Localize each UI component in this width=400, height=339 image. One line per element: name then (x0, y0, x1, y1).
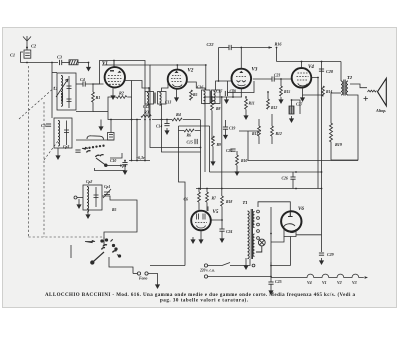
wire V6 output down (290, 237, 292, 266)
svg-text:C20: C20 (226, 149, 232, 153)
svg-text:R2: R2 (119, 91, 124, 96)
wire R17 bottom (207, 206, 209, 211)
capacitor C25 (268, 282, 273, 284)
mains terminal 2 (204, 275, 207, 278)
wire y140 link (76, 139, 114, 141)
transformer T1 (248, 209, 255, 259)
tube V6 (281, 211, 301, 232)
svg-text:C4: C4 (80, 77, 85, 82)
tube V5 (191, 211, 211, 231)
plus mark (364, 96, 368, 100)
rotary wave switch (85, 239, 121, 264)
ground (osc block) (86, 212, 90, 218)
resistor R9 (212, 136, 215, 146)
pilot lamp (256, 239, 265, 252)
svg-text:C17: C17 (216, 90, 223, 94)
svg-text:V4: V4 (308, 65, 314, 70)
node plate (221, 219, 223, 221)
fono terminal 2 (145, 272, 148, 275)
svg-text:C13: C13 (165, 101, 171, 105)
wire T1 right vertical (270, 207, 272, 277)
wire fono line right (109, 257, 133, 274)
capacitor C29 (319, 253, 324, 255)
capacitor C18 (225, 91, 227, 96)
wire R2 left (108, 97, 117, 112)
ground (V5) (199, 237, 203, 243)
svg-text:L1: L1 (53, 87, 58, 91)
wire terminal gnd (78, 199, 80, 202)
ground (input) (87, 65, 91, 71)
resistor R15 (280, 86, 283, 96)
ground (T1) (244, 263, 248, 269)
terminal (pickup) (74, 196, 77, 199)
capacitor C5 (46, 124, 51, 126)
resistor R6 (184, 129, 194, 132)
band switch wiper arcs (87, 151, 104, 157)
wire R18 bottom to plate (211, 206, 222, 220)
wire vertical x318 (317, 92, 319, 189)
svg-text:C29: C29 (327, 252, 334, 257)
wire bus y172 (210, 171, 322, 173)
ground (AVC) (99, 124, 103, 130)
ground (fono) (156, 282, 160, 288)
wire R4 right (183, 119, 200, 121)
ground (R11) (244, 113, 248, 119)
trimmer arrow across L1 (56, 79, 68, 97)
svg-text:T1: T1 (243, 200, 248, 205)
wire V1 top cap (113, 61, 115, 68)
wire R16 drop (276, 48, 278, 62)
coil L4 winding (none) (0, 0, 1, 1)
svg-text:R5: R5 (193, 93, 198, 97)
wire y65 extension (150, 65, 206, 90)
resistor R13b (271, 126, 274, 136)
mains wire 2 (208, 262, 271, 277)
dashed drop to switch (103, 237, 105, 246)
ground (C29) (320, 258, 324, 264)
wire V1 top (113, 61, 115, 67)
ground (Cp4) (123, 168, 127, 174)
wire C25 (270, 277, 272, 289)
svg-text:V5: V5 (213, 210, 219, 215)
svg-text:R12: R12 (276, 132, 282, 136)
svg-text:+6,3v: +6,3v (136, 156, 145, 160)
ground (R10) (235, 169, 239, 175)
capacitor Cp4 (122, 163, 127, 165)
svg-text:C2: C2 (31, 44, 37, 49)
svg-text:C12: C12 (143, 105, 149, 109)
node C23 right (280, 78, 282, 80)
top bus line B (102, 65, 201, 148)
arrow C22 end (269, 46, 272, 49)
osc tracking coil assembly (83, 185, 102, 210)
band switch S1 contacts (88, 145, 104, 149)
wire V6 left link (271, 237, 284, 243)
dashed gang line horizontal (29, 236, 105, 238)
svg-text:C6: C6 (184, 198, 189, 202)
wire T2 primary top (340, 62, 342, 82)
wire switch to fono line (70, 245, 72, 258)
wire V3 plate to C23 (253, 78, 272, 80)
wire detector path (239, 131, 358, 161)
svg-text:C28: C28 (326, 69, 334, 74)
speaker ALTOP (378, 78, 387, 106)
wire output loop right (331, 95, 358, 160)
wire R11 (245, 97, 247, 113)
wire IF1 pri bottom (148, 104, 150, 116)
svg-text:C1: C1 (10, 53, 15, 58)
capacitor C3 (60, 60, 62, 65)
wire Cp4 (124, 161, 126, 169)
wire AVC y119 (108, 112, 172, 120)
capacitor C7 inside (64, 121, 69, 146)
resistor R3 (141, 115, 151, 118)
node filament (136, 160, 138, 162)
capacitor C11 (box) (108, 133, 115, 141)
T1 secondary terminals (252, 210, 259, 267)
wire coil to C4 (76, 83, 83, 85)
ground (C18) (225, 97, 229, 103)
ground (C27) (290, 116, 294, 122)
capacitor C22 (229, 45, 231, 50)
svg-text:Fono: Fono (139, 277, 148, 281)
resistor R2 (117, 96, 127, 99)
filament chain wire (271, 274, 364, 277)
wire C27 top (291, 100, 293, 106)
svg-text:C14: C14 (156, 125, 162, 129)
wire T1 bottom ground (245, 258, 247, 263)
IF2 secondary winding (214, 91, 216, 104)
transformer T2 (341, 80, 348, 96)
wire V2 cathode to ground (176, 89, 178, 95)
wire R13 (258, 119, 260, 144)
tube V3 (232, 69, 252, 89)
wire C22 to arrow (231, 47, 272, 49)
svg-text:C22: C22 (207, 42, 214, 47)
svg-text:R6: R6 (187, 134, 192, 138)
resistor R18 (221, 196, 224, 206)
V3 socket box (228, 81, 255, 93)
ground (C19) (224, 133, 228, 139)
wire T1 sec top to V6 (258, 202, 290, 212)
svg-text:R19: R19 (335, 142, 343, 147)
svg-text:pag. 30 tabelle valori e tarat: pag. 30 tabelle valori e taratura). (160, 299, 249, 304)
svg-text:C26: C26 (282, 177, 288, 181)
top bus line A (grid cap loop V1) (93, 61, 145, 161)
wire x200 grid column (200, 120, 202, 191)
wire osc coil bottom (57, 148, 59, 153)
wire y265 filament line (271, 265, 291, 267)
svg-text:V3: V3 (252, 68, 258, 73)
wire R12 up (267, 92, 269, 99)
resistor R7a (V2 bias) (190, 90, 193, 100)
svg-text:C16: C16 (197, 86, 203, 90)
ground (C24) (220, 236, 224, 242)
coil L5 winding (87, 187, 89, 213)
wire V3 top cap (240, 48, 242, 69)
ground (V4) (301, 95, 305, 101)
capacitor C28 (319, 69, 324, 71)
wire fono to arrow (148, 274, 157, 283)
wire C22 line (219, 47, 229, 49)
svg-text:C25: C25 (275, 279, 282, 284)
svg-text:R5: R5 (112, 208, 117, 212)
svg-text:V2: V2 (337, 280, 342, 285)
capacitor C26 (290, 177, 295, 179)
svg-text:C15: C15 (187, 141, 193, 145)
svg-text:R4: R4 (176, 112, 181, 117)
svg-text:V4: V4 (307, 280, 312, 285)
capacitor C4a inside (67, 76, 72, 108)
band switch arrow (82, 147, 88, 149)
resistor R10 (236, 155, 239, 165)
filament line y160.5 (129, 160, 150, 162)
wire T2 sec to speaker (350, 84, 367, 88)
tube V4 (292, 68, 312, 88)
resistor R7 (206, 192, 209, 202)
wire V6 socket box (284, 229, 296, 237)
coil L3 winding (58, 121, 60, 147)
ground (C14) (165, 128, 169, 134)
svg-text:R15: R15 (284, 90, 290, 94)
wire AVC along y111 (93, 111, 108, 113)
wire C23 to V4 grid (274, 78, 292, 80)
wire C3 to R16a (62, 62, 69, 64)
wire vertical x131.5 (131, 97, 133, 161)
IF1 core (155, 93, 156, 104)
svg-text:ALLOCCHIO BACCHINI - Mod. 616.: ALLOCCHIO BACCHINI - Mod. 616. Una gamma… (45, 293, 356, 298)
ground (V2) (175, 95, 179, 101)
wire R10 (236, 151, 238, 169)
wire R8 (211, 97, 213, 140)
svg-text:C3: C3 (57, 55, 62, 60)
wire C19 (225, 120, 227, 133)
oscillator coil assembly (54, 118, 72, 148)
wire V2 top (176, 65, 178, 70)
node antenna junction (26, 47, 28, 49)
node R16 (276, 47, 278, 49)
IF transformer 2 (202, 90, 221, 104)
svg-text:C23: C23 (274, 74, 280, 78)
tube V2 (168, 70, 187, 89)
wire V4 top (301, 62, 303, 68)
wire R6 ends (179, 130, 201, 132)
ground (R15) (279, 97, 283, 103)
wire osc block to V5 column (102, 196, 137, 246)
wire C11 up (110, 120, 112, 133)
svg-text:V2: V2 (188, 69, 194, 74)
wire C14 up (166, 120, 168, 124)
wire y265 link (150, 265, 185, 267)
svg-text:T2: T2 (347, 75, 353, 80)
node mains (270, 276, 272, 278)
IF2 primary winding (204, 91, 206, 104)
svg-text:R12: R12 (271, 106, 277, 110)
wire V5 cathode (200, 230, 202, 237)
svg-text:R10: R10 (241, 159, 247, 163)
dashed gang line vertical 1 (28, 66, 30, 237)
wire R15 top (280, 79, 282, 86)
wire x178 detector column (179, 125, 210, 127)
svg-text:C5: C5 (41, 123, 46, 128)
wire input line y62 (21, 62, 59, 64)
svg-text:R13: R13 (252, 132, 258, 136)
wire V1 plate to IF1 (125, 81, 149, 89)
wire coil top to x52 (52, 72, 57, 74)
wire x178 vertical (179, 126, 186, 266)
wire main vertical x52 (51, 63, 53, 119)
capacitor C20 (230, 149, 235, 151)
capacitor C4 (to V1 grid) (83, 81, 85, 86)
svg-text:Cp2: Cp2 (86, 180, 92, 184)
svg-text:V1: V1 (102, 61, 108, 66)
svg-text:R1: R1 (96, 95, 101, 100)
svg-text:R11: R11 (249, 102, 255, 106)
filament arrow (365, 276, 368, 279)
dashed coupling diagonal 2 (44, 141, 58, 160)
wire V4 cathode (303, 88, 324, 97)
svg-text:R16: R16 (275, 42, 283, 47)
svg-text:Cp3: Cp3 (63, 145, 69, 149)
ground (T1 area) (191, 237, 195, 243)
coil L2 winding (61, 94, 63, 107)
resistor R14 (322, 86, 325, 96)
wire gnd drop from AVC (100, 120, 102, 125)
wire V1 cathode (112, 87, 114, 93)
coil L1 winding (61, 76, 63, 102)
wire IF1 primary top (148, 88, 150, 92)
tube V1 (105, 67, 125, 87)
wire R9 bottom (212, 146, 214, 159)
dashed coupling diagonal 1 (19, 86, 56, 119)
capacitor C27 (electrolytic box) (289, 106, 294, 114)
resistor R16a (box) (69, 60, 78, 65)
wire between fono (133, 273, 137, 275)
wire x205 column (204, 97, 206, 172)
capacitor C1 (trimmer box) (24, 50, 31, 58)
wire V4 plate loop (311, 78, 318, 93)
wire C24 (221, 220, 223, 236)
IF1 primary winding (147, 93, 149, 106)
svg-text:R9: R9 (217, 143, 222, 147)
svg-text:R18: R18 (226, 200, 232, 204)
resistor R12 (267, 99, 270, 109)
coil L6 winding (94, 187, 99, 207)
band switch lever (96, 158, 107, 167)
ground (C25) (269, 288, 273, 294)
wire IF1 sec top to V2 (162, 82, 169, 92)
svg-text:V1: V1 (322, 280, 327, 285)
top bus line right (B+) (277, 61, 342, 63)
svg-text:V6: V6 (298, 207, 304, 212)
svg-text:V3: V3 (352, 280, 357, 285)
svg-text:Altop.: Altop. (375, 108, 386, 113)
wire R2 right (127, 81, 131, 98)
IF1 secondary winding (160, 93, 162, 106)
wire V3 screen drop (232, 89, 234, 97)
svg-text:R8: R8 (216, 107, 221, 111)
wire R1 top (92, 84, 94, 92)
IF2 core (209, 91, 212, 103)
wire switch out 1 (107, 165, 122, 167)
voice coil (368, 90, 377, 92)
ground (osc) (56, 153, 60, 159)
svg-text:Cp1: Cp1 (104, 185, 110, 189)
wire V2 plate to IF2 (187, 82, 205, 90)
capacitor C15 (195, 139, 197, 144)
resistor R11 (245, 99, 248, 109)
capacitor C14 (164, 124, 169, 126)
wire C22 left drop (218, 48, 220, 82)
node input (26, 62, 28, 64)
wire feeder x222 (221, 97, 223, 196)
wire C26 (292, 172, 294, 189)
wire antenna to C1 (26, 48, 28, 51)
node grid (92, 83, 94, 85)
capacitor C9 (trimmer) (75, 150, 80, 152)
wire x210 column (209, 126, 211, 172)
wire switch out 2 (95, 168, 126, 171)
band switch S1 bridge (87, 136, 104, 140)
wire C1 left branch (21, 52, 24, 63)
wire C27 loop (292, 100, 301, 114)
dashed gang line vertical 2 (43, 102, 45, 237)
capacitor C24 (219, 229, 224, 231)
wire R19 top (331, 92, 341, 94)
fono terminal 1 (137, 272, 140, 275)
wire V6 right link (296, 234, 322, 236)
svg-text:C24: C24 (226, 230, 232, 234)
wire B+ vertical x322 (321, 62, 323, 253)
wire R13b (271, 114, 273, 144)
resistor R19 (vertical wavy) (330, 93, 333, 160)
mains switch (208, 259, 250, 266)
IF transformer 1 (145, 92, 166, 105)
wire V3 bottom (240, 88, 242, 97)
wire IF1 sec bottom (162, 104, 201, 152)
svg-text:R3: R3 (144, 110, 149, 115)
capacitor Cp1 trimmer (103, 189, 111, 198)
resistor R4 (172, 118, 182, 121)
wire terminal to block (77, 197, 83, 199)
wire R1 bottom to AVC (76, 102, 93, 111)
wire IF2 sec to V3 grid (216, 81, 232, 90)
capacitor C19 (223, 127, 228, 129)
wire vertical x137 (136, 120, 138, 161)
wire C4 to V1 grid (85, 83, 103, 85)
mains terminal 1 (204, 264, 207, 267)
svg-text:Cp4: Cp4 (120, 164, 126, 168)
capacitor C23 (272, 76, 274, 81)
wire switch out 3 (110, 153, 122, 158)
coil L1 assembly (RF input coils) (57, 73, 76, 110)
svg-text:C19: C19 (229, 127, 235, 131)
wire grid leak tops (199, 189, 207, 212)
wire R16a to ground (78, 63, 89, 65)
node dots (51, 47, 322, 267)
ground (R9) (211, 159, 215, 165)
resistor R13 (258, 126, 261, 136)
resistor R1 (92, 92, 95, 102)
svg-text:C10: C10 (110, 159, 116, 163)
ground (V1 cathode) (111, 93, 115, 99)
wire mid bus y97 (205, 96, 242, 98)
antenna A (23, 36, 31, 47)
ground (terminal) (77, 202, 81, 208)
svg-text:220 v. c.a.: 220 v. c.a. (199, 269, 215, 273)
wire bus y188 (196, 188, 322, 190)
resistor C6 (V5 grid leak) (198, 192, 201, 202)
